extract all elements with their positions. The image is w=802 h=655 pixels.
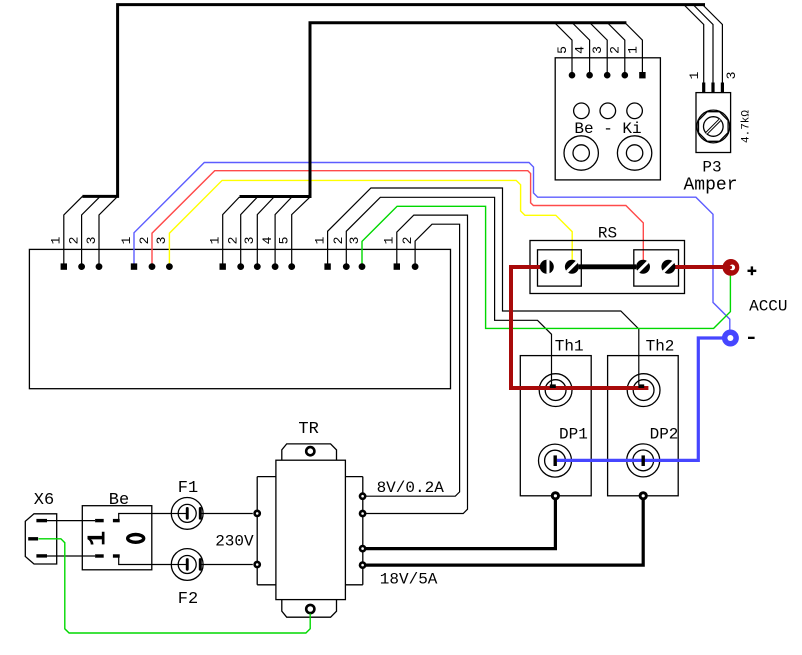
dark red wire RS to Th1/Th2 bbox=[511, 267, 648, 388]
TR pin 8V b bbox=[359, 510, 367, 518]
wire X6 pin3 to Be bbox=[47, 555, 95, 557]
meter block pins bbox=[569, 72, 646, 79]
wire D2: board pin to Th1 gate bbox=[346, 197, 551, 384]
TR pin 230V left top bbox=[253, 510, 261, 518]
TR pin 230V left bottom bbox=[253, 561, 261, 569]
svg-text:ACCU: ACCU bbox=[749, 297, 787, 315]
svg-text:F2: F2 bbox=[178, 590, 198, 609]
svg-text:Be - Ki: Be - Ki bbox=[574, 120, 641, 138]
svg-text:Th1: Th1 bbox=[555, 338, 584, 356]
F2 wire into fuse bbox=[171, 564, 186, 566]
RS screw terminal 3 bbox=[636, 260, 650, 274]
svg-text:3: 3 bbox=[84, 237, 99, 245]
X6 pin stubs bbox=[28, 521, 47, 556]
svg-text:8V/0.2A: 8V/0.2A bbox=[377, 479, 445, 497]
Th1 gate dash bbox=[550, 384, 556, 388]
RS link bar bbox=[579, 264, 636, 269]
svg-text:DP2: DP2 bbox=[650, 426, 679, 444]
svg-text:1: 1 bbox=[49, 236, 64, 244]
wire fan from cable to P3 pins bbox=[684, 5, 722, 83]
blue wire board pin B1 to ACCU minus bbox=[134, 163, 730, 335]
wire F1 to transformer bbox=[200, 513, 253, 515]
svg-text:1: 1 bbox=[119, 236, 134, 244]
green earth wire X6 to TR bbox=[39, 539, 311, 633]
P3 pin stubs bbox=[704, 83, 723, 93]
Be switch marking 0 bbox=[128, 535, 144, 543]
Be switch pin stubs bbox=[95, 521, 120, 556]
Th1 bottom pin bbox=[551, 491, 560, 500]
svg-text:TR: TR bbox=[298, 420, 318, 439]
svg-text:P3: P3 bbox=[702, 159, 721, 177]
Be switch internal links bbox=[119, 514, 172, 565]
board pin group A bbox=[61, 263, 103, 270]
svg-text:2: 2 bbox=[331, 237, 346, 245]
svg-text:1: 1 bbox=[687, 71, 702, 79]
svg-text:1: 1 bbox=[625, 46, 640, 54]
svg-text:RS: RS bbox=[598, 224, 617, 242]
wire E1: board pin to transformer 8V output bbox=[363, 215, 468, 513]
meter connector block Be-Ki bbox=[555, 58, 660, 180]
thyristor block Th1 bbox=[520, 356, 591, 496]
svg-text:5: 5 bbox=[555, 46, 570, 54]
svg-text:3: 3 bbox=[590, 46, 605, 54]
dark red wire RS to ACCU plus bbox=[668, 265, 726, 269]
svg-text:2: 2 bbox=[66, 237, 81, 245]
svg-text:Th2: Th2 bbox=[646, 338, 675, 356]
board pin group E bbox=[394, 263, 419, 270]
svg-text:F1: F1 bbox=[178, 479, 198, 498]
wire E2: board pin to transformer 8V output bbox=[363, 224, 460, 496]
yellow wire board pin B3 to RS bbox=[169, 180, 572, 266]
svg-text:2: 2 bbox=[608, 46, 623, 54]
potentiometer DP1 bbox=[539, 444, 572, 477]
svg-text:2: 2 bbox=[226, 237, 241, 245]
fuse F1 bbox=[171, 498, 203, 530]
svg-text:4: 4 bbox=[573, 46, 588, 54]
potentiometer P3 bbox=[696, 93, 731, 153]
power switch Be bbox=[82, 506, 152, 570]
Th2 gate dash bbox=[638, 384, 644, 388]
ACCU minus terminal bbox=[722, 330, 739, 347]
svg-text:Amper: Amper bbox=[683, 176, 737, 196]
fuse F2 bbox=[171, 549, 203, 581]
18V/5A thick wire to Th1 bbox=[363, 498, 556, 549]
RS screw terminal 1 bbox=[540, 260, 554, 274]
svg-text:Be: Be bbox=[109, 491, 129, 510]
TR pin 18V a bbox=[359, 545, 367, 553]
svg-text:3: 3 bbox=[724, 72, 739, 80]
svg-text:5: 5 bbox=[277, 237, 292, 245]
svg-text:4.7kΩ: 4.7kΩ bbox=[740, 110, 752, 143]
cable to meter block (thick) bbox=[240, 23, 627, 197]
RS screw terminal 2 bbox=[565, 260, 579, 274]
svg-text:4: 4 bbox=[260, 236, 275, 244]
svg-text:1: 1 bbox=[208, 236, 223, 244]
transformer TR bbox=[257, 444, 363, 617]
thyristor block Th2 bbox=[608, 356, 679, 496]
wire D1: board pin to Th2 gate bbox=[328, 188, 639, 385]
DP1 slot dash bbox=[554, 455, 557, 466]
svg-text:1: 1 bbox=[382, 236, 397, 244]
board pin group B bbox=[131, 263, 173, 270]
svg-text:2: 2 bbox=[137, 237, 152, 245]
board pin group C bbox=[220, 263, 296, 270]
wire X6 pin1 to Be bbox=[47, 520, 95, 522]
red wire board pin B2 to RS bbox=[152, 171, 643, 267]
relay block RS bbox=[530, 241, 685, 294]
svg-text:18V/5A: 18V/5A bbox=[380, 570, 438, 588]
RS screw terminal 4 bbox=[661, 260, 675, 274]
board pin group D bbox=[324, 263, 365, 270]
DP2 slot dash bbox=[642, 455, 645, 466]
main board outline bbox=[29, 249, 450, 388]
svg-text:1: 1 bbox=[312, 236, 327, 244]
blue wire ACCU minus to DP1/DP2 bbox=[557, 338, 727, 460]
wire F2 to transformer bbox=[200, 564, 253, 566]
18V/5A thick wire to Th2 bbox=[363, 498, 644, 565]
Th2 bottom pin bbox=[639, 491, 648, 500]
svg-text:X6: X6 bbox=[34, 491, 54, 510]
potentiometer DP2 bbox=[627, 444, 660, 477]
svg-text:1: 1 bbox=[82, 531, 112, 547]
wire group A pin fan (pins 1-3 to cable) bbox=[64, 196, 118, 266]
svg-text:230V: 230V bbox=[215, 533, 254, 551]
svg-text:DP1: DP1 bbox=[559, 426, 588, 444]
TR mounting hole bottom bbox=[306, 605, 314, 613]
ACCU plus sign bbox=[748, 266, 757, 275]
svg-text:2: 2 bbox=[400, 237, 415, 245]
svg-text:3: 3 bbox=[242, 237, 257, 245]
ACCU plus terminal bbox=[723, 259, 740, 276]
svg-text:3: 3 bbox=[154, 237, 169, 245]
connector X6 bbox=[25, 514, 56, 564]
wire group C pin fan (pins 1-5 to meter cable) bbox=[223, 197, 310, 267]
F1 wire into fuse bbox=[171, 513, 186, 515]
TR pin 8V a bbox=[359, 492, 367, 500]
TR pin 18V b bbox=[359, 561, 367, 569]
TR mounting hole top bbox=[306, 447, 314, 455]
wire fan from cable to meter pins bbox=[555, 24, 642, 76]
ACCU minus sign bbox=[748, 337, 755, 339]
svg-text:3: 3 bbox=[347, 237, 362, 245]
green wire board pin D3 to ACCU plus bbox=[362, 206, 730, 328]
cable to P3 potentiometer (thick) bbox=[82, 5, 705, 197]
